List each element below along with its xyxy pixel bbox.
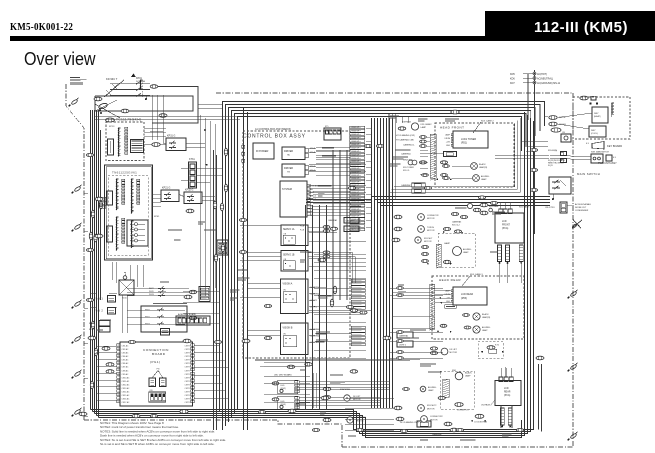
- svg-text:KD6: KD6: [510, 78, 515, 81]
- svg-text:TURNING: TURNING: [402, 122, 412, 124]
- svg-text:AC(HOT): AC(HOT): [537, 73, 547, 76]
- svg-text:MOTOR: MOTOR: [427, 218, 435, 220]
- svg-text:CNTR: CNTR: [185, 363, 191, 365]
- svg-text:KD5 CL: KD5 CL: [403, 170, 410, 172]
- svg-text:AS WELL: AS WELL: [428, 386, 438, 389]
- svg-text:PWR UNIT ASSY: PWR UNIT ASSY: [598, 162, 617, 165]
- svg-text:LAMP: LAMP: [465, 375, 471, 378]
- svg-text:HT CAMERA1 CMD: HT CAMERA1 CMD: [396, 139, 415, 142]
- svg-text:LAMP: LAMP: [421, 126, 427, 129]
- svg-text:FAN 1: FAN 1: [94, 297, 103, 301]
- svg-text:REAR: REAR: [504, 391, 511, 394]
- svg-text:GND: GND: [446, 145, 451, 147]
- svg-text:KD5 CASE 2: KD5 CASE 2: [481, 120, 494, 123]
- svg-text:KD5 CL2: KD5 CL2: [452, 225, 460, 227]
- svg-text:KD47 GP: KD47 GP: [352, 148, 360, 150]
- svg-text:LAMP: LAMP: [444, 242, 450, 245]
- svg-text:KD55 GP: KD55 GP: [352, 175, 360, 177]
- svg-text:KD71 GP: KD71 GP: [352, 229, 360, 231]
- svg-text:BLACK: BLACK: [479, 163, 486, 166]
- svg-text:AC(NEUTRAL): AC(NEUTRAL): [537, 78, 553, 81]
- svg-text:MC-D: MC-D: [310, 166, 316, 168]
- svg-text:(PCA): (PCA): [504, 394, 510, 397]
- svg-text:VGA: VGA: [309, 188, 314, 191]
- svg-text:CAMERA1: CAMERA1: [310, 286, 321, 289]
- svg-text:CN2 AC: CN2 AC: [122, 348, 129, 351]
- svg-text:DRUM: DRUM: [445, 294, 451, 296]
- svg-text:CONVEYOR: CONVEYOR: [457, 410, 469, 412]
- svg-text:FRONT: FRONT: [502, 225, 511, 227]
- svg-text:MOTOR: MOTOR: [430, 420, 438, 422]
- svg-text:KD5 CASE 1: KD5 CASE 1: [519, 206, 531, 209]
- svg-text:KD53 GP: KD53 GP: [352, 168, 360, 170]
- svg-text:CH2: CH2: [309, 212, 313, 214]
- svg-text:KT31: KT31: [189, 158, 195, 161]
- svg-text:CN9 AC: CN9 AC: [122, 373, 129, 376]
- svg-text:LAMP: LAMP: [428, 389, 434, 392]
- svg-text:DRY: DRY: [591, 130, 596, 132]
- svg-text:PH12: PH12: [149, 288, 154, 290]
- svg-text:HEAD REAR: HEAD REAR: [439, 278, 461, 282]
- svg-text:DRIVER: DRIVER: [284, 150, 293, 153]
- svg-text:KD57 GP: KD57 GP: [352, 182, 360, 184]
- svg-text:KD61 GP: KD61 GP: [352, 195, 360, 197]
- svg-text:CAMERA4: CAMERA4: [310, 335, 321, 338]
- svg-text:CNTR: CNTR: [185, 367, 191, 369]
- svg-text:TORCH: TORCH: [427, 227, 435, 229]
- svg-text:SQ11: SQ11: [548, 165, 553, 167]
- svg-text:KD 93C T: KD 93C T: [106, 77, 118, 81]
- svg-text:MAIN SWITCH: MAIN SWITCH: [577, 172, 600, 176]
- svg-text:MOTOR: MOTOR: [356, 421, 364, 423]
- svg-text:(R53): (R53): [461, 297, 467, 300]
- svg-text:6.3: 6.3: [586, 143, 590, 145]
- svg-text:KD5 HEAT: KD5 HEAT: [489, 205, 499, 208]
- svg-text:CONDENSER: CONDENSER: [575, 210, 589, 212]
- svg-text:KD5 CASE 3: KD5 CASE 3: [470, 273, 483, 276]
- svg-text:SQ13 (W.VOLTAGE: SQ13 (W.VOLTAGE: [548, 159, 566, 162]
- svg-text:CNTR: CNTR: [185, 356, 191, 358]
- svg-text:LAMP(R): LAMP(R): [479, 166, 488, 169]
- svg-text:KD42 GP: KD42 GP: [352, 131, 360, 133]
- svg-text:CN4 AC: CN4 AC: [122, 355, 129, 358]
- svg-text:HT CLEANING (CW): HT CLEANING (CW): [396, 134, 415, 137]
- svg-text:CNTR: CNTR: [185, 374, 191, 376]
- svg-text:CN5 AC: CN5 AC: [122, 359, 129, 362]
- svg-text:CN12 AC: CN12 AC: [122, 383, 131, 386]
- svg-text:CN17 AC: CN17 AC: [122, 401, 131, 404]
- svg-text:DF LIFT: DF LIFT: [353, 396, 361, 398]
- svg-text:TN611225GV61: TN611225GV61: [112, 171, 137, 175]
- svg-text:LAMP: LAMP: [482, 329, 488, 332]
- svg-text:KEY BOARD: KEY BOARD: [607, 144, 622, 148]
- svg-text:DF CLEANING CMD: DF CLEANING CMD: [400, 421, 419, 424]
- svg-text:CN13 AC: CN13 AC: [122, 387, 131, 390]
- svg-text:KP01: KP01: [136, 77, 143, 80]
- svg-text:(PG1): (PG1): [150, 360, 161, 364]
- svg-text:KD54 GP: KD54 GP: [352, 171, 360, 173]
- svg-text:(PCA): (PCA): [502, 227, 508, 230]
- svg-text:CNTR: CNTR: [185, 345, 191, 347]
- svg-text:CN15 AC: CN15 AC: [122, 394, 131, 397]
- svg-text:(COOL): (COOL): [591, 133, 598, 135]
- svg-text:P-CN: P-CN: [300, 230, 305, 232]
- svg-text:(R51): (R51): [461, 142, 467, 145]
- svg-text:CN3 AC: CN3 AC: [122, 352, 129, 355]
- svg-text:AS WELL: AS WELL: [481, 175, 491, 178]
- svg-text:CAMERA2: CAMERA2: [399, 335, 408, 338]
- svg-text:LAMP: LAMP: [463, 251, 469, 254]
- svg-text:KD65 GP: KD65 GP: [352, 209, 360, 211]
- svg-text:LIGHT1: LIGHT1: [310, 300, 318, 302]
- svg-text:KT5: KT5: [325, 126, 328, 128]
- svg-text:KD63 GP: KD63 GP: [352, 202, 360, 204]
- svg-text:DF LIFT: DF LIFT: [450, 349, 458, 351]
- svg-text:LIGHT 2: LIGHT 2: [399, 345, 406, 347]
- svg-text:KD32: KD32: [89, 329, 94, 331]
- svg-text:ACBD DRV BOARD: ACBD DRV BOARD: [178, 313, 197, 316]
- svg-text:VISION A: VISION A: [283, 283, 293, 286]
- svg-text:P-CN: P-CN: [300, 226, 305, 228]
- svg-text:LAMP: LAMP: [445, 134, 451, 137]
- svg-text:MC-B: MC-B: [310, 148, 316, 150]
- svg-text:NOISE CUT: NOISE CUT: [575, 207, 587, 209]
- svg-text:AS WELL: AS WELL: [463, 248, 473, 251]
- svg-text:CNTR: CNTR: [185, 381, 191, 383]
- svg-text:AS WELL: AS WELL: [482, 326, 492, 329]
- svg-text:CNTR: CNTR: [185, 377, 191, 379]
- svg-text:KT1: KT1: [495, 345, 500, 347]
- svg-text:LCD: LCD: [504, 388, 509, 390]
- svg-text:(HEAT): (HEAT): [594, 115, 601, 118]
- svg-text:PH13: PH13: [149, 294, 154, 296]
- svg-text:KD48 GP: KD48 GP: [352, 151, 360, 153]
- svg-text:MOTOR: MOTOR: [427, 230, 435, 232]
- svg-text:MOTOR: MOTOR: [353, 399, 361, 401]
- svg-text:CNTR: CNTR: [185, 370, 191, 372]
- svg-text:CNTR: CNTR: [185, 388, 191, 390]
- svg-text:STACKING: STACKING: [340, 388, 351, 391]
- svg-text:KP21 G: KP21 G: [162, 187, 171, 190]
- svg-text:CNTR: CNTR: [185, 402, 191, 404]
- svg-text:L-IO2: L-IO2: [309, 202, 314, 204]
- svg-text:PH11: PH11: [149, 291, 154, 293]
- svg-text:CONVEYOR: CONVEYOR: [427, 215, 439, 217]
- svg-text:KD46 GP: KD46 GP: [352, 144, 360, 146]
- svg-text:CN6 AC: CN6 AC: [122, 362, 129, 365]
- svg-text:VISION B: VISION B: [283, 328, 293, 330]
- svg-text:CN14 AC: CN14 AC: [122, 391, 131, 394]
- svg-text:KD66 GP: KD66 GP: [352, 212, 360, 214]
- svg-text:KD5 MLT: KD5 MLT: [424, 238, 433, 240]
- svg-text:FG: FG: [157, 369, 160, 371]
- svg-text:LAMP: LAMP: [481, 178, 487, 181]
- svg-text:KD49 GP: KD49 GP: [352, 154, 360, 156]
- svg-text:CN8 AC: CN8 AC: [122, 369, 129, 372]
- svg-text:LIGHT2: LIGHT2: [310, 307, 318, 309]
- svg-text:CAMERA CL: CAMERA CL: [403, 144, 415, 147]
- svg-text:KP32 G: KP32 G: [185, 189, 194, 192]
- svg-text:SL is set A and SE is SET B wh: SL is set A and SE is SET B when ACB's o…: [100, 442, 215, 446]
- svg-text:CAMERA3: CAMERA3: [310, 328, 321, 331]
- svg-text:KD5 CASE2: KD5 CASE2: [421, 123, 433, 126]
- svg-text:KD7: KD7: [510, 82, 515, 85]
- svg-text:KD11: KD11: [122, 298, 127, 300]
- svg-text:CN11 AC: CN11 AC: [122, 380, 130, 383]
- svg-text:KD52 GP: KD52 GP: [352, 165, 360, 167]
- svg-text:CAMERA1: CAMERA1: [328, 219, 337, 222]
- svg-text:LCD REAR: LCD REAR: [461, 293, 473, 296]
- svg-text:DRIVER: DRIVER: [284, 167, 293, 170]
- svg-text:6.3: 6.3: [613, 157, 617, 159]
- svg-text:CONVEYOR2: CONVEYOR2: [430, 416, 443, 418]
- svg-text:CNTR: CNTR: [185, 399, 191, 401]
- svg-text:CN16 AC: CN16 AC: [122, 398, 131, 401]
- svg-text:BLACK: BLACK: [465, 372, 472, 375]
- svg-text:CAMERA3: CAMERA3: [452, 221, 461, 224]
- svg-text:TA: TA: [287, 154, 290, 157]
- svg-text:BOARD: BOARD: [152, 352, 166, 356]
- svg-text:PH21: PH21: [145, 317, 150, 319]
- svg-text:TB: TB: [287, 172, 290, 174]
- svg-text:MOTOR: MOTOR: [424, 241, 432, 243]
- svg-text:AC(GROUND) MS-11: AC(GROUND) MS-11: [537, 82, 561, 85]
- svg-text:CNTR: CNTR: [185, 360, 191, 362]
- svg-text:LIGHT 1: LIGHT 1: [346, 229, 353, 231]
- svg-text:CH3: CH3: [309, 209, 313, 211]
- svg-text:ON: ON: [283, 334, 286, 336]
- svg-text:CN10 AC: CN10 AC: [122, 376, 131, 379]
- svg-text:DRY: DRY: [594, 113, 599, 115]
- svg-text:DRUM: DRUM: [445, 138, 451, 140]
- svg-text:CNTR: CNTR: [185, 384, 191, 386]
- svg-text:BLACK: BLACK: [482, 313, 489, 316]
- svg-text:CAMERA1: CAMERA1: [346, 220, 355, 223]
- svg-text:CN1 AC: CN1 AC: [122, 344, 129, 347]
- svg-text:CAMERA2: CAMERA2: [432, 433, 443, 436]
- svg-text:KD31: KD31: [89, 323, 94, 325]
- svg-text:KD44 GP: KD44 GP: [352, 137, 360, 139]
- svg-text:CN3 PAGE 2: CN3 PAGE 2: [481, 404, 491, 407]
- svg-text:KD51 GP: KD51 GP: [352, 161, 360, 163]
- svg-text:KD64 GP: KD64 GP: [352, 205, 360, 207]
- svg-text:CONTROL BOX ASSY: CONTROL BOX ASSY: [243, 134, 306, 140]
- svg-text:KD5-B2(A): KD5-B2(A): [548, 149, 558, 152]
- svg-text:CNTR: CNTR: [185, 353, 191, 355]
- svg-text:KD56 GP: KD56 GP: [352, 178, 360, 180]
- svg-text:PH23: PH23: [145, 324, 150, 326]
- svg-text:KD5 MLT2: KD5 MLT2: [427, 405, 437, 407]
- svg-text:DF WIDTH: DF WIDTH: [356, 417, 366, 419]
- svg-text:AC100V/1A MAX: AC100V/1A MAX: [575, 203, 591, 206]
- svg-text:MAIN SWITCH: MAIN SWITCH: [596, 151, 609, 154]
- svg-text:CN7 AC: CN7 AC: [122, 366, 129, 369]
- svg-text:KD5: KD5: [510, 73, 515, 76]
- svg-text:KP31 G: KP31 G: [167, 135, 176, 138]
- svg-text:KP41: KP41: [154, 216, 160, 218]
- svg-text:KD45 GP: KD45 GP: [352, 141, 360, 143]
- svg-text:HEAD FRONT: HEAD FRONT: [440, 126, 465, 130]
- svg-text:R POWER: R POWER: [256, 149, 269, 153]
- svg-text:LED: LED: [281, 385, 285, 387]
- svg-text:PH22: PH22: [145, 310, 150, 312]
- svg-text:+24V: +24V: [446, 142, 451, 144]
- svg-text:SYSTEM: SYSTEM: [282, 188, 292, 191]
- svg-text:LCD: LCD: [502, 221, 507, 223]
- svg-text:SERVO 1A: SERVO 1A: [283, 228, 295, 231]
- svg-text:FAN 2: FAN 2: [94, 309, 103, 313]
- svg-text:CN-1/T33: CN-1/T33: [545, 207, 555, 209]
- svg-text:KD50 GP: KD50 GP: [352, 158, 360, 160]
- svg-text:ON: ON: [283, 290, 286, 292]
- svg-text:CNTR: CNTR: [185, 392, 191, 394]
- svg-text:MOTOR: MOTOR: [427, 409, 435, 411]
- svg-text:LAMP(R): LAMP(R): [482, 316, 491, 319]
- svg-text:KD41 GP: KD41 GP: [352, 127, 360, 129]
- svg-text:KD43 GP: KD43 GP: [352, 134, 360, 136]
- svg-text:SERVO 1B: SERVO 1B: [283, 255, 295, 257]
- svg-text:CNTR: CNTR: [185, 395, 191, 397]
- svg-text:CAMERA1: CAMERA1: [401, 152, 412, 155]
- svg-text:CNTR: CNTR: [185, 349, 191, 351]
- svg-text:KP13: KP13: [109, 126, 115, 128]
- svg-text:KD5 TONER: KD5 TONER: [403, 167, 414, 169]
- svg-text:MOTOR: MOTOR: [450, 352, 458, 354]
- svg-text:MC-A: MC-A: [310, 151, 316, 154]
